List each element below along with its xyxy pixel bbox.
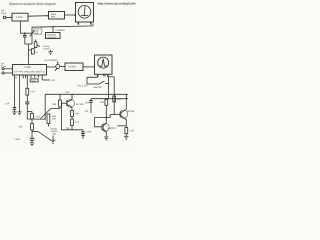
svg-text:generator: generator xyxy=(47,36,57,39)
svg-text:TL08: TL08 xyxy=(24,65,31,69)
svg-text:0 to 62.8MHz: 0 to 62.8MHz xyxy=(44,59,59,62)
svg-text:1.5K: 1.5K xyxy=(129,130,134,133)
svg-text:0V: 0V xyxy=(15,76,18,79)
svg-text:1.5nF: 1.5nF xyxy=(14,138,20,141)
svg-text:control: control xyxy=(43,48,50,51)
svg-text:1K5: 1K5 xyxy=(100,101,105,104)
svg-text:1nF: 1nF xyxy=(85,110,90,113)
svg-text:swp out: swp out xyxy=(94,86,102,89)
svg-text:10K: 10K xyxy=(19,126,24,129)
svg-text:wdt: wdt xyxy=(35,32,39,35)
svg-text:22K: 22K xyxy=(117,98,122,101)
svg-text:BC548: BC548 xyxy=(69,66,77,69)
svg-text:BC548: BC548 xyxy=(127,110,135,113)
svg-text:swp: swp xyxy=(52,115,57,118)
svg-text:input: input xyxy=(1,12,7,15)
svg-text:10K: 10K xyxy=(52,133,57,136)
svg-text:0-30M: 0-30M xyxy=(16,16,23,19)
svg-text:4.7K: 4.7K xyxy=(35,116,40,119)
svg-text:1nF: 1nF xyxy=(5,102,10,105)
svg-text:+12V: +12V xyxy=(65,91,71,94)
svg-text:+9V: +9V xyxy=(51,79,56,82)
svg-text:sawtooth: sawtooth xyxy=(47,33,57,36)
svg-text:Spectrum analyzer block diagra: Spectrum analyzer block diagram xyxy=(9,2,56,6)
svg-text:10nF: 10nF xyxy=(85,102,91,105)
svg-text:4.7K: 4.7K xyxy=(75,121,80,124)
svg-text:resol.: resol. xyxy=(51,13,57,16)
svg-text:4.7K: 4.7K xyxy=(30,91,35,94)
svg-text:LT +9V 0SC MX OUT G: LT +9V 0SC MX OUT G xyxy=(14,71,45,74)
svg-text:input: input xyxy=(1,65,7,68)
svg-text:100n: 100n xyxy=(31,79,35,82)
svg-text:10nF: 10nF xyxy=(86,130,92,133)
svg-text:2N2222: 2N2222 xyxy=(108,127,117,130)
svg-text:filter: filter xyxy=(51,16,56,19)
svg-text:BC548: BC548 xyxy=(77,103,85,106)
svg-text:+9V a 12V: +9V a 12V xyxy=(77,84,88,87)
svg-text:http://www.qsl.net/py2ohh: http://www.qsl.net/py2ohh xyxy=(98,1,136,5)
svg-text:0-30MHz: 0-30MHz xyxy=(56,29,66,32)
